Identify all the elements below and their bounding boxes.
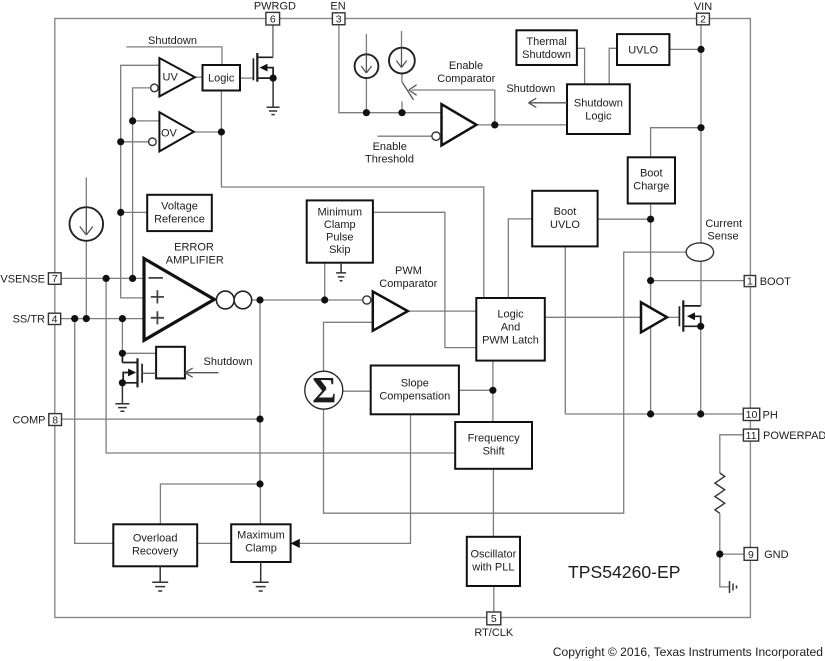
GROUNDS — [115, 78, 736, 593]
wire voltage reference tap — [121, 211, 148, 213]
wire GND pin line — [720, 553, 744, 555]
wire frequency shift to oscillator — [492, 469, 494, 537]
bubble UV inverting input — [151, 84, 159, 92]
svg-text:PWRGD: PWRGD — [254, 0, 296, 12]
node minimum clamp tap — [321, 296, 328, 303]
node discharge FET source — [119, 379, 126, 386]
wire soft start current source to SS/TR — [85, 241, 87, 319]
wire OV+ input — [133, 120, 160, 122]
node enable comparator output — [491, 121, 498, 128]
node OV+ tap — [129, 117, 136, 124]
pin 5 box — [487, 612, 501, 625]
wire comp net to maximum clamp — [259, 484, 261, 524]
wire Boot UVLO input from latch — [508, 219, 532, 298]
switch blade EN hysteresis — [402, 82, 413, 100]
wire minimum clamp tap to comp line — [324, 263, 326, 300]
svg-text:Shutdown: Shutdown — [522, 49, 571, 61]
current source soft-start — [70, 207, 104, 241]
svg-text:Slope: Slope — [401, 378, 429, 390]
plus mark error amp (reference) — [151, 290, 164, 303]
node VREF tap — [117, 209, 124, 216]
svg-text:with PLL: with PLL — [471, 562, 514, 574]
node overload/maxclamp branch — [256, 480, 263, 487]
wire UVLO to VIN rail — [669, 48, 701, 50]
svg-text:Enable: Enable — [449, 60, 483, 72]
pin 9 box — [744, 548, 758, 561]
pin 11 box — [743, 429, 758, 441]
svg-text:Oscillator: Oscillator — [470, 549, 516, 561]
wire GND node to chassis ground — [720, 554, 730, 587]
wire POWERPAD to resistor — [720, 435, 744, 473]
svg-text:Boot: Boot — [640, 168, 663, 180]
ground maximum clamp — [253, 562, 269, 591]
node discharge FET drain — [119, 350, 126, 357]
node GND resistor junction — [716, 551, 723, 558]
CURRENT SOURCES — [70, 48, 415, 241]
wire VIN tap to Boot Charge — [651, 128, 701, 158]
pin 2 box — [697, 13, 710, 25]
wire SS/TR line to error amp plus — [61, 318, 144, 320]
svg-text:EN: EN — [330, 1, 345, 13]
svg-text:SS/TR: SS/TR — [13, 314, 45, 326]
wire SS/TR to discharge FET drain — [121, 319, 123, 354]
node OV- tap — [117, 138, 124, 145]
summing junction sigma — [305, 371, 343, 412]
svg-text:Voltage: Voltage — [161, 201, 198, 213]
node EN I1 — [363, 109, 370, 116]
svg-text:Recovery: Recovery — [132, 546, 179, 558]
svg-text:ERROR: ERROR — [174, 242, 214, 254]
svg-text:Σ: Σ — [312, 371, 336, 412]
shutdown logic block — [567, 84, 630, 134]
wire error amp output — [252, 299, 363, 301]
node boot rail at PH — [647, 410, 654, 417]
svg-text:Logic: Logic — [585, 111, 612, 123]
logic block U-LOGIC — [203, 65, 241, 91]
svg-text:UVLO: UVLO — [628, 45, 658, 57]
logic and PWM latch block — [476, 298, 545, 361]
frequency shift block — [455, 422, 532, 469]
svg-text:Shutdown: Shutdown — [574, 98, 623, 110]
svg-text:Shutdown: Shutdown — [204, 356, 253, 368]
svg-text:Threshold: Threshold — [365, 154, 414, 166]
wire PWRGD pin to FET drain — [272, 25, 274, 57]
wire driver to power FET gate — [667, 316, 679, 318]
current source Ihys (EN) — [389, 48, 415, 74]
minimum clamp pulse skip block — [307, 200, 373, 262]
wire Ihys to switch — [401, 74, 403, 83]
wire enable threshold to comparator bubble — [378, 135, 432, 137]
svg-text:Minimum: Minimum — [317, 207, 362, 219]
wire VIN rail to power FET drain — [700, 261, 702, 306]
wire comp net to overload recovery top — [160, 484, 260, 524]
svg-text:Shutdown: Shutdown — [148, 35, 197, 47]
node power FET source — [697, 323, 704, 330]
wire EN comparator output to Shutdown Logic — [476, 124, 567, 126]
svg-text:COMP: COMP — [13, 415, 46, 427]
svg-text:Logic: Logic — [497, 309, 524, 321]
transistor high-side power FET — [679, 300, 700, 331]
wire Logic bottom to OV output node — [220, 91, 222, 133]
svg-text:Sense: Sense — [707, 231, 738, 243]
ground chassis at GND pin (sideways) — [730, 581, 737, 593]
wire overload recovery to maximum clamp — [197, 542, 231, 544]
error amp input polarity marks — [149, 278, 165, 325]
node slope comp / latch — [489, 387, 496, 394]
node VIN-UVLO tap — [697, 46, 704, 53]
svg-text:Enable: Enable — [373, 141, 407, 153]
comparator UV — [159, 58, 195, 96]
BOX TEXTS — [132, 36, 669, 574]
svg-text:Charge: Charge — [633, 181, 669, 193]
svg-text:Shutdown: Shutdown — [506, 83, 555, 95]
wire Logic output to PWRGD FET gate — [240, 77, 253, 79]
svg-text:Comparator: Comparator — [437, 73, 495, 85]
pin 7 box — [48, 273, 61, 285]
BOXES — [113, 30, 675, 586]
svg-text:GND: GND — [764, 549, 789, 561]
MOSFETS — [122, 25, 700, 387]
svg-text:BOOT: BOOT — [760, 276, 791, 288]
svg-text:3: 3 — [336, 14, 342, 26]
input bubbles — [149, 84, 441, 304]
svg-text:11: 11 — [746, 430, 757, 442]
node SS/TR overload tap — [71, 315, 78, 322]
wire UVLO to Shutdown Logic — [609, 48, 617, 84]
wire BOOT pin line — [651, 280, 745, 282]
voltage reference block — [147, 195, 212, 231]
svg-text:Thermal: Thermal — [526, 36, 566, 48]
wire UV output to Logic — [195, 76, 203, 78]
node boot UVLO tap — [647, 216, 654, 223]
svg-text:Shift: Shift — [483, 446, 505, 458]
wire Boot UVLO tap — [598, 218, 651, 220]
bubble OV inverting input — [149, 138, 157, 146]
wire drain node to shutdown box — [122, 352, 156, 354]
node VSENSE-UV/OV junction — [129, 275, 136, 282]
thermal shutdown block — [516, 30, 577, 65]
svg-text:RT/CLK: RT/CLK — [474, 627, 514, 639]
svg-text:Clamp: Clamp — [245, 543, 277, 555]
svg-text:OV: OV — [161, 128, 178, 140]
svg-text:VSENSE: VSENSE — [0, 273, 45, 285]
node SS/TR current source tap — [83, 315, 90, 322]
comparator PWM — [373, 292, 408, 331]
wire oscillator to RT/CLK pin — [493, 586, 495, 612]
wire current source I1 stub — [365, 34, 367, 54]
svg-text:Copyright © 2016, Texas Instru: Copyright © 2016, Texas Instruments Inco… — [553, 645, 823, 659]
svg-text:7: 7 — [52, 273, 58, 285]
arrowhead shutdown into discharge box — [185, 368, 219, 377]
arrowhead shutdown logic out — [529, 98, 568, 107]
bubble enable comparator inverting input — [432, 132, 440, 140]
node VSENSE-freqshift junction — [103, 275, 110, 282]
wire Boot Charge bottom rail to PH — [650, 204, 652, 415]
ground discharge FET — [115, 383, 129, 412]
PINS — [48, 12, 759, 624]
wire switch stub to EN node — [401, 101, 403, 112]
svg-text:4: 4 — [52, 313, 58, 325]
solid arrowhead into maximum clamp — [291, 539, 300, 548]
maximum clamp block — [231, 524, 290, 562]
wire I1 to EN node — [365, 78, 367, 113]
current source I1 (EN) — [355, 54, 379, 78]
wire OV output — [194, 131, 222, 133]
node error amp output COMP tap — [256, 296, 263, 303]
ground minimum clamp — [336, 263, 346, 281]
oscillator with PLL block — [467, 537, 520, 586]
node BOOT tap — [647, 277, 654, 284]
overload recovery block — [113, 524, 197, 566]
node VIN-bootcharge tap — [697, 124, 704, 131]
pin 3 box — [332, 13, 345, 25]
pin 8 box — [49, 414, 62, 426]
svg-text:VIN: VIN — [694, 1, 712, 13]
node PWRGD FET source — [270, 75, 277, 82]
wire UV+ / OV- / VREF vertical net — [121, 65, 160, 298]
wire comparator output feedback to switch arrow — [412, 90, 495, 125]
svg-text:9: 9 — [748, 549, 754, 561]
arrow soft-start current source — [80, 208, 93, 236]
comparator enable — [442, 104, 477, 145]
wire VSENSE line to error amp minus — [61, 277, 144, 279]
wire PWM comparator output to latch — [408, 310, 477, 312]
transistor PWRGD open-drain FET — [253, 25, 273, 82]
svg-text:Current: Current — [705, 218, 742, 230]
buffer circle 1 — [216, 291, 234, 309]
arrow I1 — [361, 54, 371, 73]
boot charge block — [628, 157, 675, 203]
svg-text:Logic: Logic — [208, 73, 235, 85]
UVLO block — [617, 34, 669, 65]
shutdown discharge control box — [156, 347, 185, 379]
svg-text:Comparator: Comparator — [379, 278, 437, 290]
svg-text:Pulse: Pulse — [326, 232, 354, 244]
wire summing node to PWM comparator plus — [324, 322, 373, 373]
node OV output — [218, 128, 225, 135]
wire PH pin line — [565, 413, 743, 415]
wire resistor bottom to GND node — [719, 514, 721, 555]
svg-text:Boot: Boot — [554, 206, 577, 218]
boot UVLO block — [532, 191, 597, 247]
buffer circle 2 — [234, 291, 252, 309]
wire Boot UVLO bottom to PH — [564, 246, 566, 414]
svg-text:2: 2 — [700, 14, 706, 26]
transistor SS/TR discharge FET (mirrored) — [122, 353, 156, 387]
svg-text:Clamp: Clamp — [324, 219, 356, 231]
wire slope compensation to latch net — [459, 389, 493, 391]
wire latch bottom to frequency shift — [492, 361, 494, 422]
wire VIN rail upper — [700, 24, 702, 243]
arrow Ihys — [396, 48, 406, 68]
wire VSENSE net down to frequency shift — [106, 278, 455, 453]
wire power FET source to PH — [700, 326, 702, 414]
svg-text:UV: UV — [163, 72, 179, 84]
node SS/TR discharge tap — [119, 315, 126, 322]
svg-text:Frequency: Frequency — [468, 433, 520, 445]
ground overload recovery — [152, 566, 168, 591]
svg-text:PWM Latch: PWM Latch — [482, 335, 539, 347]
wire EN pin down to node line — [339, 25, 442, 113]
svg-text:8: 8 — [52, 414, 58, 426]
wire latch output to driver — [545, 316, 641, 318]
svg-text:UVLO: UVLO — [550, 219, 580, 231]
wire COMP pin line — [62, 418, 261, 420]
wire soft start source stub — [85, 178, 87, 208]
svg-text:5: 5 — [491, 613, 497, 625]
wire SS/TR net down to overload recovery — [75, 319, 114, 544]
pin 4 box — [48, 313, 60, 324]
wire shutdown label line to Logic top — [126, 47, 222, 65]
svg-text:Reference: Reference — [154, 214, 205, 226]
svg-text:Maximum: Maximum — [237, 530, 285, 542]
svg-text:TPS54260-EP: TPS54260-EP — [568, 562, 680, 582]
svg-text:PWM: PWM — [395, 265, 422, 277]
svg-text:PH: PH — [763, 409, 778, 421]
svg-text:POWERPAD: POWERPAD — [763, 430, 825, 442]
slope compensation block — [371, 366, 459, 415]
svg-text:Overload: Overload — [133, 533, 178, 545]
current sense sensor ellipse — [686, 243, 713, 261]
svg-text:6: 6 — [270, 14, 276, 26]
gate driver buffer — [641, 302, 667, 332]
wire Thermal Shutdown to Shutdown Logic — [577, 48, 585, 84]
pin 10 box — [743, 408, 759, 420]
wire COMP net vertical — [259, 300, 261, 484]
wire minimum clamp output to latch — [373, 212, 476, 347]
node EN Ihys — [398, 109, 405, 116]
wire OV node down and across to PWM latch top — [221, 132, 483, 298]
resistor powerpad-gnd — [715, 473, 725, 513]
bubble PWM comparator inverting input — [363, 296, 371, 304]
comparator OV — [159, 112, 193, 151]
wire current sense loop to summing node — [324, 252, 687, 513]
pin 1 box — [744, 276, 755, 287]
minus mark error amp — [149, 277, 164, 279]
wire Ihys stub — [401, 31, 403, 48]
pin 6 box — [266, 12, 280, 25]
node COMP pin junction — [256, 416, 263, 423]
arrowhead EN switch control — [409, 85, 417, 95]
wire summing node to slope compensation — [342, 390, 371, 392]
outer device boundary — [55, 19, 751, 618]
svg-text:And: And — [501, 322, 521, 334]
plus mark error amp (SS/TR) — [151, 311, 164, 324]
svg-text:10: 10 — [746, 409, 758, 421]
TRIANGLES / AMPS — [144, 58, 667, 340]
wire OV- input — [121, 141, 149, 143]
svg-text:1: 1 — [747, 276, 753, 288]
svg-text:AMPLIFIER: AMPLIFIER — [166, 255, 224, 267]
wire slope compensation down to maximum clamp arrow — [297, 414, 411, 543]
error amp output buffer circles — [216, 291, 251, 309]
svg-text:Skip: Skip — [329, 244, 350, 256]
ground PWRGD FET source — [267, 78, 280, 115]
wire UV- / OV+ / VSENSE vertical net — [133, 88, 151, 279]
node FET source at PH — [697, 410, 704, 417]
svg-text:Compensation: Compensation — [379, 391, 450, 403]
op-amp error amplifier — [144, 259, 214, 341]
